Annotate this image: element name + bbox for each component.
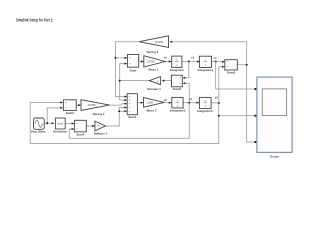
node Sum3 output junction	[246, 64, 248, 66]
sum Sum	[125, 55, 139, 73]
wire: Spring2 out to Sum1 in3	[110, 104, 126, 105]
wire: Integrator2 to Integrator3 with v2 junction	[183, 102, 199, 104]
svg-text:Damper 2: Damper 2	[94, 132, 108, 136]
wire: Mass1 to Integrator	[165, 61, 171, 63]
svg-text:Integrator3: Integrator3	[197, 109, 213, 113]
wire: Damper2 out up to Sum1 in4 and in5	[105, 108, 125, 127]
wire: x2 riser to Sum3 in2	[219, 67, 225, 103]
wire: Sum2 to Spring2	[76, 104, 81, 106]
svg-text:Sine Wave: Sine Wave	[31, 130, 46, 134]
wire: Integrator to Integrator1 with v1 junction	[182, 61, 200, 63]
source Sine Wave	[31, 118, 46, 134]
integrator Integrator	[169, 56, 185, 72]
wire: Sum1 to Mass2	[137, 102, 143, 104]
svg-text:Sum: Sum	[130, 68, 137, 72]
svg-text:v2: v2	[189, 97, 193, 101]
svg-text:Damper 1: Damper 1	[147, 87, 161, 91]
svg-text:a1: a1	[164, 55, 168, 59]
svg-text:Simulink Setup for Part 1:: Simulink Setup for Part 1:	[16, 17, 54, 22]
svg-text:x2: x2	[215, 96, 219, 100]
wire: x2 down, branch to Scope in2, down to bottom feedback to Sum2 in1	[30, 103, 257, 144]
node sine output junction	[46, 122, 48, 124]
integrator Integrator1	[197, 56, 213, 72]
svg-text:Sum5: Sum5	[173, 87, 182, 91]
svg-text:Spring 1: Spring 1	[147, 50, 159, 54]
wire: v1 down to Sum5 in1	[185, 62, 189, 78]
integrator Integrator3	[197, 97, 213, 113]
gain Damper 1 (points left)	[147, 77, 164, 92]
svg-text:Mass 2: Mass 2	[147, 108, 157, 112]
wire: Spring1 output left + down to Sum and Sum1	[115, 42, 139, 97]
svg-text:40/289: 40/289	[87, 103, 96, 107]
svg-text:Derivative: Derivative	[53, 130, 68, 134]
wire: Sum5 output to Damper1	[163, 80, 172, 82]
svg-text:Sum4: Sum4	[76, 133, 85, 137]
scope Scope	[254, 77, 292, 158]
sum Sum3	[222, 60, 237, 75]
integrator Integrator2	[169, 97, 186, 112]
wire: Sine Wave out to Derivative and riser to Sum2 in2	[44, 108, 61, 123]
wire: Sum3 output right, up to Spring1, down to Scope in3	[170, 42, 257, 142]
sum Sum5	[171, 75, 185, 91]
svg-text:v1: v1	[191, 56, 195, 60]
gain Damper 2	[92, 121, 108, 136]
svg-text:Spring 2: Spring 2	[93, 112, 105, 116]
svg-text:Mass 1: Mass 1	[149, 68, 159, 72]
svg-text:1/300: 1/300	[146, 101, 153, 105]
wire: Derivative to Sum4 in1	[65, 123, 73, 125]
node x1 junction	[215, 61, 217, 63]
wire: Damper1 output left + up/down to Sum in2 / Sum1 in2	[120, 64, 150, 101]
gain Mass 2	[141, 98, 168, 113]
wire: v2 riser to Sum5 in2	[185, 83, 189, 102]
node damper2 branch junction	[118, 110, 120, 112]
svg-text:Sum2: Sum2	[66, 111, 75, 115]
sum Sum1	[124, 94, 137, 119]
svg-text:x1: x1	[214, 56, 218, 60]
wire: Integrator3 to x2 junction	[211, 102, 219, 104]
svg-text:1/1028: 1/1028	[146, 60, 155, 64]
wire: Integrator1 to Sum3 in1 with x1 junction	[212, 61, 225, 63]
wire: Sum4 to Damper2	[86, 125, 93, 127]
gain Mass 1	[141, 55, 168, 71]
wire: v2 down to bottom feedback to Sum4 in2	[69, 103, 189, 139]
node v2 junction	[188, 102, 190, 104]
svg-text:Sum1: Sum1	[128, 115, 137, 119]
wire: Sum to Mass1	[139, 61, 144, 63]
wire: x1 down and right to Scope in1	[216, 62, 257, 90]
node v1 junction	[188, 61, 190, 63]
node Damper1 feedback junction	[119, 80, 121, 82]
derivative Derivative	[52, 118, 68, 134]
svg-text:Integrator2: Integrator2	[170, 109, 186, 113]
svg-text:Integrator: Integrator	[170, 68, 185, 72]
sum Sum2	[60, 100, 76, 115]
svg-text:du/dt: du/dt	[57, 121, 63, 125]
svg-text:Scope: Scope	[270, 155, 279, 159]
wire: Mass2 to Integrator2	[164, 102, 171, 104]
node x2 junction	[218, 102, 220, 104]
node x2 scope branch junction	[218, 115, 220, 117]
svg-text:40/289: 40/289	[155, 40, 164, 44]
node Spring1 feedback junction	[114, 57, 116, 59]
sum Sum4	[72, 120, 87, 136]
gain Spring 2	[78, 100, 109, 116]
svg-text:a2: a2	[164, 98, 168, 102]
svg-text:Sum3: Sum3	[227, 70, 236, 74]
gain Spring 1 (points left)	[139, 36, 172, 54]
svg-text:Integrator1: Integrator1	[198, 68, 214, 72]
